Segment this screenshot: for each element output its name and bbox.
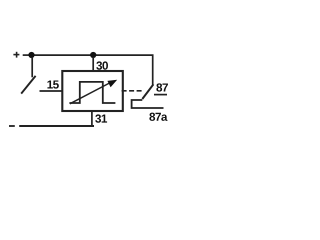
adjustment arrow head (107, 80, 117, 88)
wire terminal 31 (91, 111, 93, 126)
contact 87 line (154, 94, 167, 96)
label 31 (95, 114, 107, 122)
adjustment arrow shaft (70, 83, 111, 104)
dashed actuation link (122, 90, 142, 92)
switch S1 blade (21, 76, 35, 94)
wire to terminal 30 (92, 57, 94, 71)
label 87 (156, 83, 168, 91)
node junction dot terminal 30 (90, 52, 96, 58)
label 30 (96, 61, 108, 69)
relay box U1 (62, 71, 123, 111)
wire from plus to node (23, 54, 31, 56)
minus terminal symbol (9, 125, 15, 127)
lever pivot wire to 87a (132, 100, 164, 108)
wire top rail with right drop to contact (32, 55, 153, 85)
wire terminal 15 to box (40, 90, 64, 92)
pulse waveform symbol (69, 82, 115, 103)
relay contact lever (142, 84, 153, 99)
label 15 (47, 80, 58, 88)
label 87a (149, 113, 167, 121)
switch S1 wire from node (31, 57, 33, 77)
wire ground rail (19, 125, 94, 127)
node junction dot left (28, 52, 34, 58)
plus terminal symbol (13, 52, 19, 58)
